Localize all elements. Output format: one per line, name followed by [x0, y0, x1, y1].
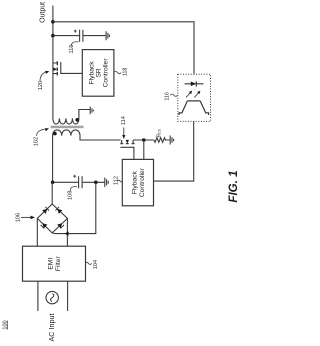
- bridge diode BL: [42, 223, 47, 228]
- wire sense node to controller: [143, 140, 145, 159]
- label Rcs: [157, 128, 163, 137]
- svg-text:110: 110: [69, 45, 75, 54]
- op-amp-block Flyback Controller U112 box: [122, 159, 153, 205]
- svg-text:112: 112: [114, 176, 120, 185]
- bridge diode BR: [57, 223, 62, 228]
- svg-text:FIG. 1: FIG. 1: [227, 170, 240, 202]
- capacitor 108 plus sign: [73, 175, 76, 178]
- wire output rail vertical: [52, 6, 54, 116]
- node dot cap108 right: [94, 181, 98, 185]
- wire bulk rail: [53, 181, 78, 183]
- transformer T102 secondary winding: [53, 110, 90, 125]
- capacitor 110 plus sign: [74, 30, 77, 33]
- label 108 with leader: [68, 191, 74, 200]
- label 120 with curved arrow: [38, 81, 44, 90]
- bridge rectifier 106: [37, 204, 67, 233]
- wire capacitor 110 to ground: [83, 35, 105, 37]
- optocoupler phototransistor: [179, 101, 209, 115]
- wire bridge top to bulk node: [51, 182, 53, 204]
- optocoupler 116 dashed box: [178, 74, 211, 121]
- svg-text:104: 104: [93, 260, 99, 269]
- svg-text:114: 114: [121, 116, 127, 125]
- svg-text:Filter: Filter: [55, 256, 62, 272]
- svg-text:120: 120: [38, 81, 44, 90]
- label 100 underlined: [3, 320, 9, 329]
- label 104 with squiggle leader: [86, 262, 92, 264]
- capacitor 108: [79, 176, 83, 188]
- wire top rail to optocoupler: [53, 22, 194, 75]
- optocoupler LED: [185, 83, 204, 85]
- EMI Filter box 104: [23, 246, 86, 281]
- transistor Q120 SR MOSFET: [53, 63, 57, 74]
- transistor Q114 primary MOSFET: [122, 140, 134, 143]
- svg-text:Controller: Controller: [103, 58, 110, 88]
- label 112 with squiggle leader: [114, 176, 120, 185]
- svg-text:EMI: EMI: [47, 258, 54, 270]
- transformer T102 primary winding: [53, 130, 121, 182]
- svg-text:Output: Output: [39, 2, 46, 23]
- bridge diode TL: [42, 209, 47, 214]
- wire controller to optocoupler: [154, 121, 194, 181]
- wire bridge left AC: [36, 218, 38, 246]
- ground (output side): [106, 31, 109, 40]
- svg-text:Flyback: Flyback: [132, 170, 139, 194]
- wire bridge right AC: [66, 218, 68, 246]
- wire to capacitor C110: [53, 35, 79, 37]
- op-amp-block Flyback SR Controller U118 box: [82, 50, 114, 97]
- transformer dot secondary: [75, 118, 79, 122]
- AC source circle: [46, 291, 58, 303]
- transformer core: [51, 126, 84, 129]
- svg-text:118: 118: [122, 68, 128, 76]
- transformer dot primary: [53, 132, 57, 136]
- label 106 with arrow: [15, 213, 21, 222]
- ground (sense resistor): [170, 136, 173, 145]
- label 118 with squiggle leader: [114, 71, 121, 73]
- resistor Rcs: [154, 138, 170, 143]
- label 116 with squiggle leader: [164, 92, 170, 100]
- svg-text:Controller: Controller: [139, 167, 146, 197]
- capacitor 110: [80, 30, 83, 42]
- wire MOSFET 114 to resistor node: [133, 139, 154, 141]
- ground (bulk): [105, 178, 108, 188]
- svg-text:AC Input: AC Input: [47, 314, 56, 342]
- bridge diode TR: [57, 209, 62, 214]
- node dot top rail: [51, 20, 55, 24]
- wire AC lead right: [67, 281, 69, 311]
- optocoupler light arrows: [186, 92, 199, 97]
- node dot cap 110 tap: [51, 34, 55, 38]
- node Output label: [39, 2, 46, 23]
- wire AC lead left: [37, 281, 39, 311]
- node dot sense: [142, 138, 146, 142]
- wire bridge bottom DC- return: [52, 182, 96, 233]
- node AC Input label: [47, 314, 56, 342]
- svg-text:108: 108: [68, 191, 74, 200]
- node dot bulk: [51, 181, 55, 185]
- svg-text:116: 116: [164, 92, 170, 100]
- label 110 with leader: [69, 45, 75, 54]
- svg-text:106: 106: [15, 213, 21, 222]
- svg-text:SR: SR: [96, 68, 103, 77]
- FIG. 1 caption: [227, 170, 240, 202]
- label 102 with curved arrow: [34, 137, 40, 146]
- wire capacitor 108 to ground: [83, 181, 105, 183]
- arrowhead on return wire: [64, 231, 68, 235]
- label 114 with arrow leader: [121, 116, 127, 125]
- svg-text:102: 102: [34, 137, 40, 146]
- ground (secondary winding): [90, 107, 93, 115]
